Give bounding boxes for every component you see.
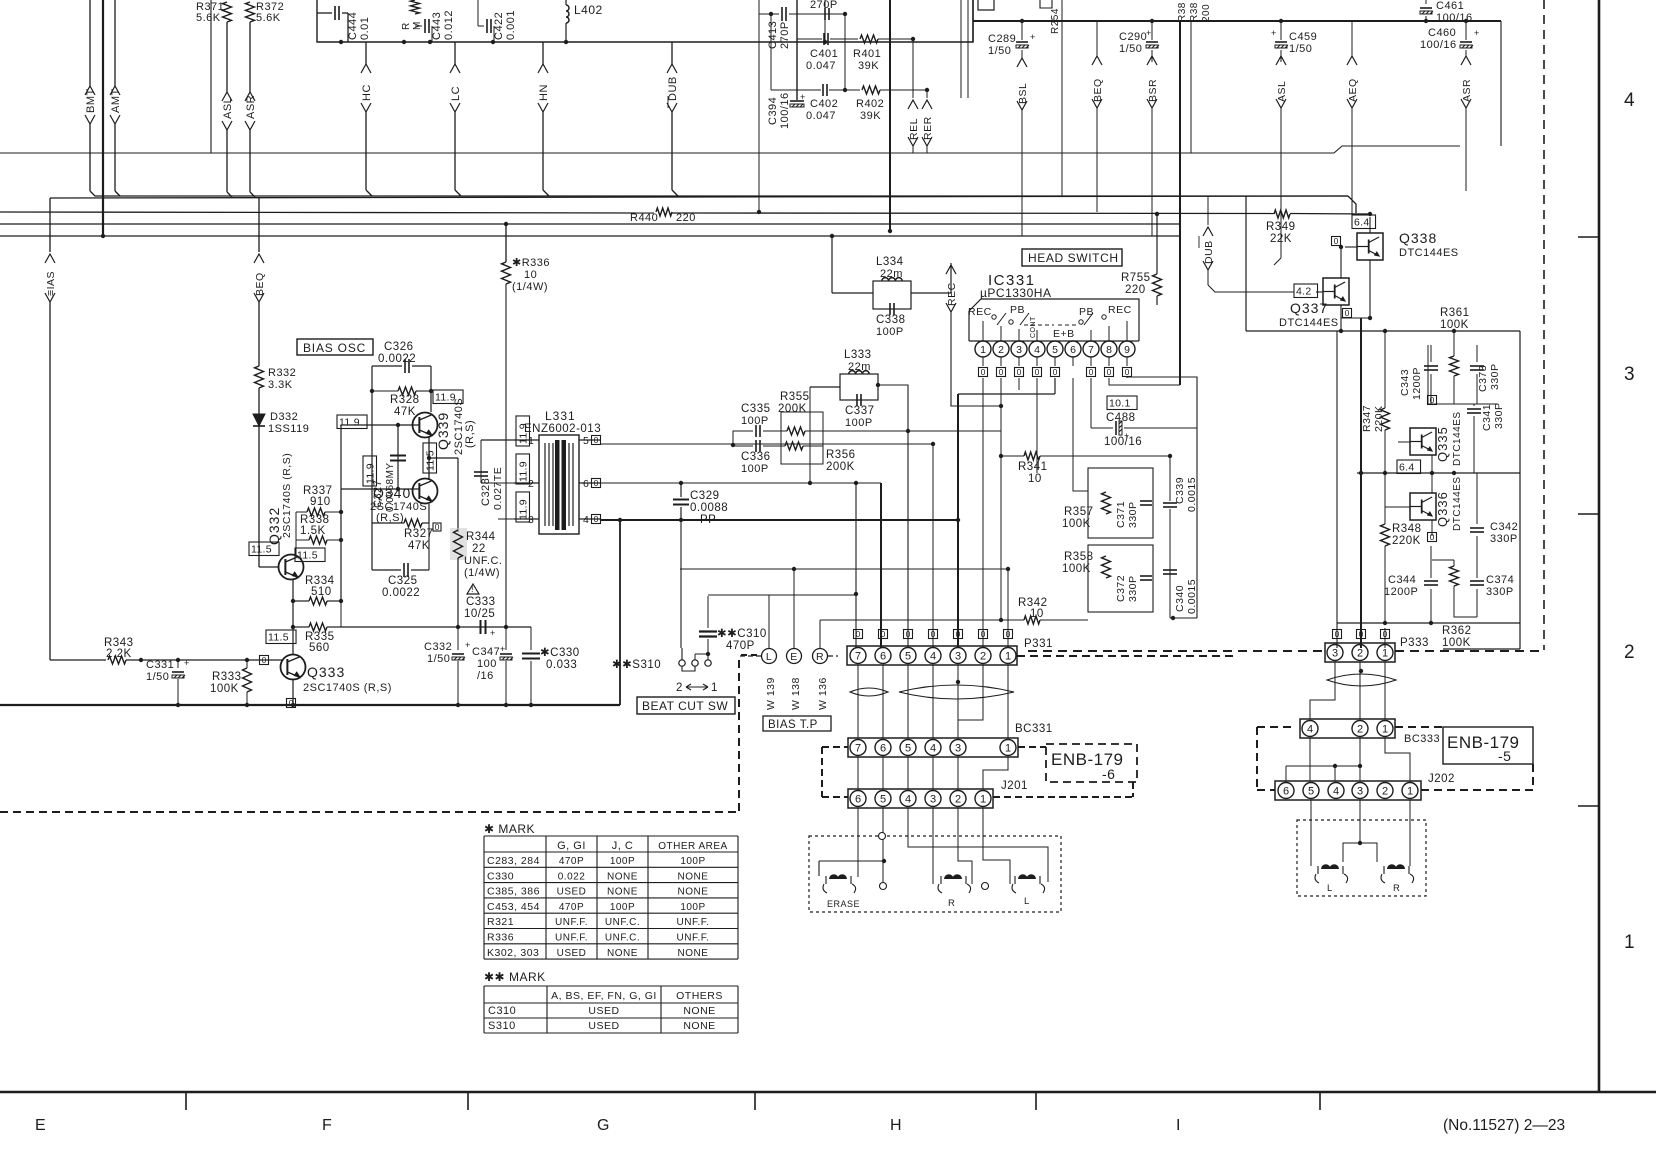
svg-text:J, C: J, C <box>612 840 634 852</box>
wire L333 left <box>810 386 840 388</box>
svg-text:NONE: NONE <box>607 871 638 882</box>
svg-text:11.9: 11.9 <box>518 461 530 482</box>
dashed ENB to J201 <box>1132 782 1134 797</box>
svg-text:100: 100 <box>477 658 497 670</box>
svg-text:W 136: W 136 <box>817 677 829 710</box>
capacitor C289 electrolytic <box>1016 41 1028 43</box>
svg-text:NONE: NONE <box>607 887 638 898</box>
svg-text:6: 6 <box>1070 344 1076 356</box>
svg-text:2: 2 <box>980 650 986 662</box>
svg-text:NONE: NONE <box>678 871 709 882</box>
svg-text:A, BS, EF, FN, G, GI: A, BS, EF, FN, G, GI <box>551 990 657 1002</box>
IC331 pin squares <box>979 368 988 377</box>
svg-text:REC: REC <box>1108 304 1132 316</box>
off-page connector BMT <box>89 0 91 86</box>
svg-text:560: 560 <box>309 642 330 654</box>
svg-text:0.047: 0.047 <box>806 60 836 72</box>
svg-text:6: 6 <box>583 478 589 490</box>
wire Q332 collector <box>295 512 297 555</box>
svg-text:Q333: Q333 <box>307 664 345 680</box>
svg-text:J202: J202 <box>1428 773 1455 785</box>
svg-text:C460: C460 <box>1428 27 1456 39</box>
wire y456 <box>1001 455 1024 457</box>
boxed label 11.9 pin2 <box>516 454 530 484</box>
boxed label 0 p333 2 <box>1357 630 1366 639</box>
svg-text:10/25: 10/25 <box>464 608 495 620</box>
off-page connector AMT <box>114 0 116 86</box>
R head terminal circle <box>982 883 989 890</box>
svg-text:C289: C289 <box>988 33 1016 45</box>
wire pin9 to right <box>1127 377 1197 618</box>
svg-text:100K: 100K <box>210 683 239 695</box>
off-page connector REL <box>912 39 914 98</box>
BEAT CUT SW label box <box>637 697 735 714</box>
svg-text:+: + <box>1146 28 1152 38</box>
wires J201 down <box>857 808 859 877</box>
wire trunk x211 <box>210 0 212 153</box>
wire Q332 base <box>259 566 278 568</box>
boxed label 11.9 pin1 <box>516 416 530 446</box>
svg-text:+: + <box>1124 430 1129 440</box>
wire transformer pin5 row <box>601 443 933 445</box>
erase head terminal <box>880 883 887 890</box>
wire x797 column <box>796 0 798 100</box>
boxed label 11.9 a <box>433 390 463 404</box>
svg-text:BMT: BMT <box>85 88 97 113</box>
svg-text:22: 22 <box>472 543 486 555</box>
svg-text:39K: 39K <box>860 110 881 122</box>
connector J202 box <box>1275 781 1421 800</box>
svg-text:0: 0 <box>594 514 599 524</box>
svg-text:DUB: DUB <box>667 76 679 101</box>
svg-text:C401: C401 <box>810 48 838 60</box>
svg-text:1/50: 1/50 <box>146 671 169 683</box>
svg-text:✱C330: ✱C330 <box>540 647 580 659</box>
capacitor C327 <box>397 425 399 489</box>
svg-text:4: 4 <box>930 742 936 754</box>
boxed label 10.1 <box>1107 396 1137 410</box>
transistor Q337 <box>1323 278 1349 305</box>
svg-text:11.5: 11.5 <box>425 450 437 471</box>
transformer L331 <box>539 435 579 534</box>
wire y766 link <box>1285 766 1287 781</box>
svg-text:C374: C374 <box>1486 574 1514 586</box>
svg-text:C459: C459 <box>1289 31 1317 43</box>
capacitor C325 <box>372 569 401 571</box>
svg-text:C333: C333 <box>466 596 496 608</box>
svg-text:11.9: 11.9 <box>518 499 530 520</box>
svg-text:2: 2 <box>1357 647 1363 659</box>
svg-text:C461: C461 <box>1436 0 1464 12</box>
svg-text:(R,S): (R,S) <box>464 420 476 448</box>
svg-text:2: 2 <box>955 793 961 805</box>
svg-text:5: 5 <box>1052 344 1058 356</box>
svg-text:C337: C337 <box>845 405 875 417</box>
svg-text:0.0015: 0.0015 <box>1186 579 1198 614</box>
svg-text:C338: C338 <box>876 314 906 326</box>
svg-text:R361: R361 <box>1440 307 1470 319</box>
resistor R357 <box>1102 492 1111 514</box>
wire rail y473 <box>1357 472 1520 474</box>
svg-text:7: 7 <box>855 742 861 754</box>
transistor Q339 <box>413 413 438 438</box>
dashed link L to beatcut <box>740 655 761 657</box>
capacitor C459 electrolytic <box>1275 41 1287 43</box>
boxed label 0 q333 emitter <box>287 699 296 708</box>
svg-text:0: 0 <box>1035 367 1040 377</box>
svg-text:C339: C339 <box>1174 477 1186 504</box>
svg-text:2: 2 <box>1382 785 1388 797</box>
BIAS OSC label box <box>297 339 373 355</box>
resistor R332 <box>255 366 264 388</box>
svg-text:R341: R341 <box>1018 461 1048 473</box>
bus wire y213 <box>0 212 654 213</box>
wire L334 left <box>832 292 873 294</box>
svg-text:L: L <box>1327 883 1333 894</box>
svg-text:I: I <box>1176 1117 1180 1134</box>
inductor L402 <box>566 5 569 23</box>
resistor R336 <box>505 224 507 262</box>
wire x1191 <box>1190 21 1192 153</box>
svg-text:11.9: 11.9 <box>365 463 377 484</box>
svg-text:REC: REC <box>968 306 992 318</box>
svg-text:UNF.F.: UNF.F. <box>555 917 588 928</box>
svg-text:330P: 330P <box>1489 363 1501 390</box>
diode D332 <box>253 414 265 426</box>
dashed wire P333 right <box>1395 650 1544 652</box>
off-page connector BSR <box>1151 50 1153 62</box>
off-page connector ASL right <box>1280 50 1282 62</box>
twisted pair lens large <box>899 685 1014 699</box>
boxed label 11.9 c <box>363 456 377 486</box>
wires BC333 to J202 <box>1309 738 1311 781</box>
big dashed box right <box>1257 726 1296 728</box>
svg-text:C336: C336 <box>741 451 771 463</box>
svg-text:R321: R321 <box>487 916 514 928</box>
C343 R361 C373 network box <box>1428 345 1497 404</box>
boxed label 4.2 q337 <box>1294 284 1318 298</box>
erase head <box>818 861 820 876</box>
svg-text:Q332: Q332 <box>266 507 282 545</box>
svg-text:200K: 200K <box>778 403 807 415</box>
svg-text:3: 3 <box>955 742 961 754</box>
svg-text:NONE: NONE <box>683 1020 715 1032</box>
resistor R440 on bus <box>656 208 672 216</box>
svg-text:7: 7 <box>1088 344 1094 356</box>
svg-text:F: F <box>322 1117 332 1134</box>
svg-text:1/50: 1/50 <box>1289 43 1312 55</box>
svg-text:270P: 270P <box>810 0 838 11</box>
dashed boundary heads row <box>808 835 810 837</box>
boxed label 0 q337 <box>1343 309 1352 318</box>
svg-text:BEQ: BEQ <box>1092 78 1104 102</box>
wire rail y623 <box>1337 622 1520 624</box>
capacitor C328 <box>481 439 514 441</box>
svg-text:5: 5 <box>583 435 589 447</box>
svg-text:+: + <box>465 640 471 650</box>
svg-text:0: 0 <box>1125 367 1130 377</box>
svg-text:RER: RER <box>922 116 934 140</box>
svg-text:330P: 330P <box>1486 586 1514 598</box>
svg-text:330P: 330P <box>1490 533 1518 545</box>
capacitor C402 <box>822 84 824 96</box>
svg-text:3: 3 <box>1624 364 1635 385</box>
wire R343 bias line <box>50 659 106 661</box>
sheet border bottom <box>0 1091 1656 1094</box>
svg-text:R38: R38 <box>1189 2 1200 22</box>
svg-text:R357: R357 <box>1064 506 1094 518</box>
wire C335 row right <box>805 430 1001 432</box>
svg-text:1200P: 1200P <box>1411 367 1423 400</box>
svg-text:G: G <box>597 1117 609 1134</box>
svg-text:S310: S310 <box>488 1020 516 1032</box>
transistor Q336 <box>1410 493 1436 520</box>
P331 pin squares <box>854 630 863 639</box>
svg-text:R362: R362 <box>1442 625 1472 637</box>
svg-text:200K: 200K <box>826 461 855 473</box>
wire C310 to L <box>708 594 857 596</box>
svg-text:0: 0 <box>1430 532 1435 542</box>
svg-text:100P: 100P <box>610 856 635 867</box>
svg-text:C443: C443 <box>431 12 443 40</box>
boxed label 0 q338 <box>1332 237 1341 246</box>
svg-text:R755: R755 <box>1121 272 1151 284</box>
svg-text:2SC1740S (R,S): 2SC1740S (R,S) <box>303 682 392 694</box>
resistor R362 vertical <box>1453 560 1455 566</box>
svg-text:100P: 100P <box>845 417 873 429</box>
wire q337 emitter <box>1334 305 1336 331</box>
resistor R327 <box>428 504 430 523</box>
boxed label 0 q333 base <box>260 656 269 665</box>
transistor Q333 <box>281 655 306 680</box>
svg-text:220: 220 <box>1125 284 1146 296</box>
capacitor C339 <box>1163 502 1177 504</box>
border tick marks right <box>1578 236 1599 238</box>
svg-text:L: L <box>1024 896 1030 907</box>
svg-text:D332: D332 <box>270 411 298 423</box>
boxed label 11.5 r335 <box>266 630 296 644</box>
svg-text:0: 0 <box>1089 367 1094 377</box>
svg-text:C283, 284: C283, 284 <box>487 855 540 867</box>
svg-text:100P: 100P <box>741 463 769 475</box>
wire y618 <box>1170 617 1197 619</box>
svg-text:Q338: Q338 <box>1399 230 1437 246</box>
wire REC down <box>951 312 1001 406</box>
wire x1180 trunk <box>1179 21 1181 385</box>
wire q338 collector <box>1369 217 1371 233</box>
svg-text:5: 5 <box>880 793 886 805</box>
svg-text:R348: R348 <box>1392 523 1422 535</box>
capacitor C332 electrolytic <box>457 627 459 650</box>
capacitor C341 <box>1473 404 1475 406</box>
resistor R356 <box>785 442 803 450</box>
svg-text:C342: C342 <box>1490 521 1518 533</box>
svg-text:1/50: 1/50 <box>1119 43 1142 55</box>
svg-text:+: + <box>1474 28 1480 38</box>
svg-text:0.0022: 0.0022 <box>382 587 420 599</box>
svg-text:330P: 330P <box>1127 501 1139 528</box>
svg-text:BC333: BC333 <box>1404 733 1440 745</box>
wire x759 <box>758 0 760 212</box>
svg-text:330P: 330P <box>1127 575 1139 602</box>
resistor R371 <box>223 2 232 22</box>
wire y649 stub <box>1443 648 1520 650</box>
transistor Q338 <box>1357 233 1383 260</box>
svg-text:1/50: 1/50 <box>988 45 1011 57</box>
svg-text:4: 4 <box>1624 90 1635 111</box>
svg-text:1200P: 1200P <box>1384 586 1418 598</box>
svg-text:3.3K: 3.3K <box>268 379 293 391</box>
resistor R349 <box>1274 210 1290 218</box>
svg-text:4: 4 <box>1307 723 1313 735</box>
small component box top right <box>978 0 994 10</box>
svg-text:2SC1740S (R,S): 2SC1740S (R,S) <box>281 453 293 538</box>
off-page connector ASR <box>249 22 251 92</box>
svg-text:0: 0 <box>262 655 267 665</box>
svg-text:DTC144ES: DTC144ES <box>1452 411 1463 466</box>
resistor R411 <box>411 0 420 14</box>
svg-text:UNF.F.: UNF.F. <box>677 933 710 944</box>
svg-text:11.9: 11.9 <box>339 417 360 429</box>
svg-text:1: 1 <box>980 793 986 805</box>
svg-text:PP: PP <box>700 514 716 526</box>
svg-text:6.4: 6.4 <box>1399 462 1415 474</box>
svg-text:100K: 100K <box>1062 563 1091 575</box>
wire q337 collector <box>1340 247 1342 278</box>
svg-text:C310: C310 <box>488 1005 516 1017</box>
svg-text:/16: /16 <box>477 670 494 682</box>
svg-text:✱ MARK: ✱ MARK <box>484 822 535 836</box>
IC331 switch body <box>969 299 1139 341</box>
svg-text:REL: REL <box>908 118 920 140</box>
svg-text:ASL: ASL <box>222 97 234 119</box>
dashed J201 left <box>822 796 848 798</box>
wire C326 right <box>430 366 432 412</box>
dashed stub to L <box>741 654 761 656</box>
svg-text:DTC144ES: DTC144ES <box>1452 476 1463 531</box>
connector BC333 pins <box>1302 721 1318 737</box>
capacitor C373 <box>1476 345 1478 362</box>
svg-text:L333: L333 <box>844 349 872 361</box>
off-page connector LC <box>454 42 456 64</box>
capacitor C347 electrolytic <box>504 625 508 629</box>
heads dashed box <box>809 836 1061 912</box>
svg-text:100P: 100P <box>741 415 769 427</box>
wire Q332 emitter to Q333 <box>292 601 294 655</box>
ENB-179-5 box <box>1443 727 1533 764</box>
svg-text:1: 1 <box>1624 932 1635 953</box>
wire P331 pin1 feed <box>1007 569 1009 648</box>
wire oscillator box right edge <box>619 520 621 705</box>
svg-text:Q337: Q337 <box>1290 300 1328 316</box>
svg-text:R333: R333 <box>212 671 242 683</box>
svg-text:P333: P333 <box>1400 637 1429 649</box>
wire x845 <box>844 14 846 90</box>
svg-text:0: 0 <box>931 629 936 639</box>
svg-text:C394: C394 <box>767 97 779 125</box>
svg-text:E: E <box>790 651 798 663</box>
test point E <box>787 649 802 664</box>
off-page connector DUB <box>671 42 673 64</box>
capacitor C401 <box>823 33 825 45</box>
capacitor C342 <box>1476 473 1478 524</box>
boxed label 11.5 q332 <box>249 542 279 556</box>
capacitor C343 <box>1430 345 1432 362</box>
svg-text:R401: R401 <box>853 48 881 60</box>
resistor R348 <box>1384 507 1386 524</box>
wire x341 down <box>340 601 342 627</box>
wire Q333 emitter <box>292 679 294 705</box>
svg-text:L402: L402 <box>574 3 603 17</box>
svg-text:100P: 100P <box>680 856 705 867</box>
svg-text:PB: PB <box>1010 304 1025 316</box>
wire L334 right <box>911 292 951 294</box>
wire x1497 rail <box>1496 404 1498 598</box>
svg-text:1: 1 <box>1005 742 1011 754</box>
svg-text:0: 0 <box>1359 629 1364 639</box>
svg-text:6: 6 <box>880 650 886 662</box>
svg-text:PB: PB <box>1079 306 1094 318</box>
svg-text:47K: 47K <box>408 540 430 552</box>
svg-text:100K: 100K <box>1440 319 1469 331</box>
svg-text:HC: HC <box>361 84 373 101</box>
svg-text:W 138: W 138 <box>790 677 802 710</box>
svg-text:1: 1 <box>1005 650 1011 662</box>
wire q336 base <box>1385 506 1410 508</box>
boxed label 0 q335 top <box>1428 396 1437 405</box>
svg-text:5: 5 <box>905 742 911 754</box>
svg-text:100P: 100P <box>876 326 904 338</box>
svg-text:UNF.C.: UNF.C. <box>605 917 640 928</box>
svg-text:R332: R332 <box>268 367 296 379</box>
svg-text:(No.11527) 2—23: (No.11527) 2—23 <box>1443 1117 1565 1134</box>
open circle on dash <box>879 833 886 840</box>
svg-text:NONE: NONE <box>678 887 709 898</box>
connector J201 pins <box>850 791 866 807</box>
svg-text:2: 2 <box>1357 723 1363 735</box>
svg-text:11.9: 11.9 <box>518 423 530 444</box>
svg-text:+: + <box>500 644 506 654</box>
svg-text:R358: R358 <box>1064 551 1094 563</box>
svg-text:Q340: Q340 <box>373 485 411 501</box>
svg-text:✱R336: ✱R336 <box>512 257 550 269</box>
capacitor C413 <box>781 7 783 21</box>
wire trunk x103 <box>102 0 104 236</box>
wire P331 pin6 feed thick <box>880 483 882 648</box>
bus wire y196 BIAS <box>49 198 51 252</box>
svg-text:L334: L334 <box>876 256 904 268</box>
svg-text:R440: R440 <box>630 212 658 224</box>
off-page connector ASL <box>226 22 228 92</box>
svg-text:C373: C373 <box>1477 365 1489 392</box>
svg-text:REC: REC <box>946 282 958 306</box>
svg-text:C328: C328 <box>480 478 492 506</box>
svg-text:4.2: 4.2 <box>1296 286 1312 298</box>
off-page connector HN <box>542 42 544 64</box>
svg-text:ASR: ASR <box>1461 79 1473 102</box>
wire Q339 emitter to Q340 collector <box>428 437 430 479</box>
svg-text:DTC144ES: DTC144ES <box>1279 317 1339 329</box>
wire box bottom right <box>1427 403 1429 405</box>
wire Q339 base <box>341 424 419 426</box>
svg-text:9: 9 <box>1124 344 1130 356</box>
svg-text:5: 5 <box>1308 785 1314 797</box>
wire Q333 base <box>126 659 282 661</box>
svg-text:C372: C372 <box>1115 575 1127 602</box>
connector P333 box <box>1325 643 1395 662</box>
svg-text:!: ! <box>471 584 474 594</box>
J202 head dashed box <box>1297 820 1426 896</box>
